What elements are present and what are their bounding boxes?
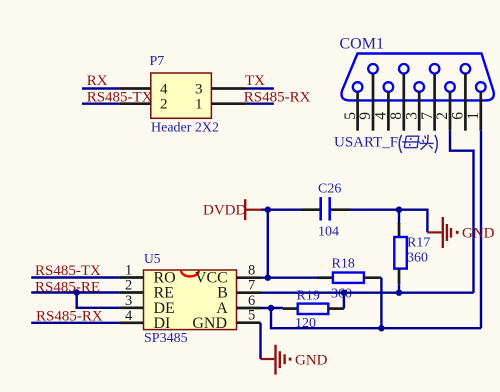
svg-text:C26: C26 [318,182,341,197]
svg-text:2: 2 [160,97,168,113]
COM1 pin 8 [388,64,409,131]
svg-text:COM1: COM1 [340,36,384,53]
U5 pin 5 [237,308,261,324]
wire VCC pin8 row [261,277,317,279]
U5 pin 1 [120,263,144,279]
header P7 body [151,73,212,118]
wire A net bottom [271,308,481,328]
svg-text:U5: U5 [144,251,161,266]
svg-text:GND: GND [295,353,328,369]
wire GND pin5 drop [259,323,261,359]
svg-text:1: 1 [195,97,203,113]
svg-text:4: 4 [125,308,133,324]
U5 pin 4 [120,308,144,324]
ground GND (bottom) [261,345,328,375]
svg-text:R19: R19 [297,289,320,304]
wire R18 to A net [380,278,382,329]
svg-text:2: 2 [125,278,132,294]
ground GND (right) [427,217,494,248]
wire TX [245,87,274,89]
svg-text:R17: R17 [407,235,430,250]
svg-text:USART_F: USART_F [334,135,398,151]
svg-text:1: 1 [125,263,132,279]
capacitor C26 [302,197,350,220]
svg-text:3: 3 [195,82,203,98]
wire RS485-RX to pin4 [31,322,119,324]
COM1 pin 2 [434,82,455,131]
svg-text:DVDD: DVDD [203,203,246,219]
COM1 pin 4 [373,82,394,131]
P7 pin 3 [211,87,245,90]
wire RS485-TX (top) [82,102,120,104]
wire GND row right of C26 [350,210,427,233]
svg-text:3: 3 [125,293,132,309]
svg-text:GND: GND [462,226,495,242]
power port DVDD [203,199,261,220]
wire COM1 pin1 to A net [480,131,482,329]
svg-text:RS485-TX: RS485-TX [87,89,153,105]
P7 pin 1 [211,102,245,105]
junction B/R17 [396,290,402,296]
svg-text:360: 360 [407,251,428,266]
wire A pin6 stub [261,307,283,309]
COM1 pin 5 [342,82,363,131]
svg-text:P7: P7 [150,54,165,69]
connector COM1 DB9 outline [341,54,493,101]
svg-text:TX: TX [245,73,265,89]
junction DVDD/VCC [265,207,271,213]
svg-text:Header 2X2: Header 2X2 [151,121,219,136]
resistor R17 [394,210,407,293]
svg-text:6: 6 [248,293,255,309]
hanzi mu [402,136,420,147]
wire R19 right to B [343,293,345,309]
wire COM1 pin2 to B net [450,131,474,293]
svg-text:RX: RX [87,73,108,89]
wire B pin7 row [261,292,474,294]
junction pin6/A [268,305,274,311]
svg-text:4: 4 [160,82,168,98]
svg-text:5: 5 [248,308,255,324]
U5 pin 2 [120,278,144,294]
P7 pin 2 [120,102,151,105]
svg-text:RS485-RX: RS485-RX [244,89,311,105]
junction R18/A [378,325,384,331]
U5 pin 7 [237,278,262,294]
svg-text:RS485-RX: RS485-RX [36,308,103,324]
junction pin8/DVDD [265,275,271,281]
svg-text:DI: DI [154,315,171,332]
junction B/R19 [341,290,347,296]
svg-text:RS485-TX: RS485-TX [35,263,101,279]
svg-text:104: 104 [318,225,339,240]
wire DVDD row left of C26 [261,208,302,210]
label USART_F (female) [334,135,437,154]
U5 pin 8 [237,263,262,279]
svg-text:8: 8 [248,263,255,279]
wire DVDD to VCC pin8 [267,210,269,278]
svg-text:SP3485: SP3485 [144,331,188,346]
COM1 pin 1 [465,82,486,131]
wire RE to DE pin3 [77,293,120,308]
U5 pin 3 [120,293,144,309]
resistor R19 [283,304,344,314]
P7 pin 4 [120,87,151,90]
COM1 pin 7 [419,64,440,131]
junction RE/DE [74,289,80,295]
svg-text:1: 1 [465,112,482,120]
U5 pin 6 [237,293,262,309]
hanzi tou [420,135,434,150]
COM1 pin 6 [450,64,471,131]
svg-text:GND: GND [192,315,227,332]
IC U5 SP3485 body [144,270,237,330]
COM1 pin 3 [403,82,424,131]
COM1 pin 9 [357,64,378,131]
wire RS485-TX to pin1 [31,276,119,278]
resistor R18 [317,273,381,283]
svg-text:RS485-RE: RS485-RE [35,279,100,295]
junction C26/R17/GND [396,207,402,213]
wire RX [82,87,120,89]
svg-text:7: 7 [248,278,255,294]
wire RS485-RE to pin2 [31,291,119,293]
wire RS485-RX (top) [245,102,274,104]
svg-text:R18: R18 [332,257,355,272]
